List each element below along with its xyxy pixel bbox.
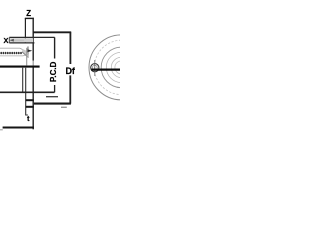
nut body circle [101,47,142,88]
screw outer circle [111,57,131,77]
wire flange right face vertical [32,18,34,61]
wire flange left face vertical [26,68,28,115]
wire flange top edge extension [33,31,71,33]
wire bolt hole centerline tick [94,60,96,76]
svg-text:P.C.D: P.C.D [49,61,58,82]
wire nut body vertical [22,68,24,93]
pilot circle [106,52,136,82]
bore circle [115,61,128,74]
node screw thread band [0,47,20,49]
wire nut bottom edge [34,103,71,105]
wire axis thick line front view [91,68,120,70]
wire lower edge line [26,106,34,108]
wire Df dimension line [69,32,71,64]
wire nut face vertical gray [26,48,28,66]
node bolt hole [91,64,99,72]
P.C.D circle dashed [94,40,148,94]
wire short edge segment [46,96,58,98]
svg-text:Df: Df [65,66,75,76]
node front view circles [89,35,154,100]
node thread runout [22,49,27,56]
svg-text:X: X [4,36,9,45]
wire P.C.D dimension line [54,37,56,58]
wire faint lower segment [61,106,67,108]
node leader arrow [27,49,32,52]
wire axis thick line left view [0,66,40,68]
flange outer circle [89,35,154,100]
svg-text:Z: Z [26,9,31,18]
node X dimension arrow [10,39,24,41]
node Z dimension bracket [24,18,26,43]
wire bottom thick line [3,127,34,129]
wire flange bottom edge [26,99,34,101]
wire lower bolt centerline [0,91,55,93]
node X dimension box [10,38,33,42]
